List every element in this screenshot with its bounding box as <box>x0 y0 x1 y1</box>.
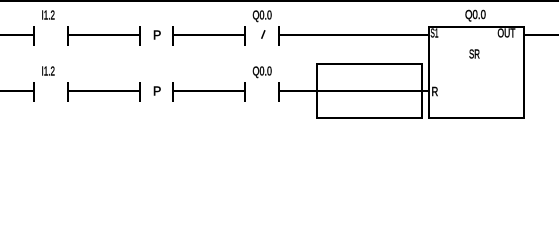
svg-text:P: P <box>153 85 161 99</box>
svg-text:Q0.0: Q0.0 <box>465 8 486 22</box>
svg-text:I1.2: I1.2 <box>42 9 56 23</box>
svg-text:OUT: OUT <box>498 27 516 41</box>
svg-text:Q0.0: Q0.0 <box>253 65 273 79</box>
svg-text:Q0.0: Q0.0 <box>253 9 273 23</box>
svg-text:R: R <box>432 85 439 99</box>
svg-text:I1.2: I1.2 <box>42 65 56 79</box>
svg-text:P: P <box>153 29 161 43</box>
svg-text:S1: S1 <box>431 27 439 41</box>
svg-text:SR: SR <box>469 48 480 62</box>
